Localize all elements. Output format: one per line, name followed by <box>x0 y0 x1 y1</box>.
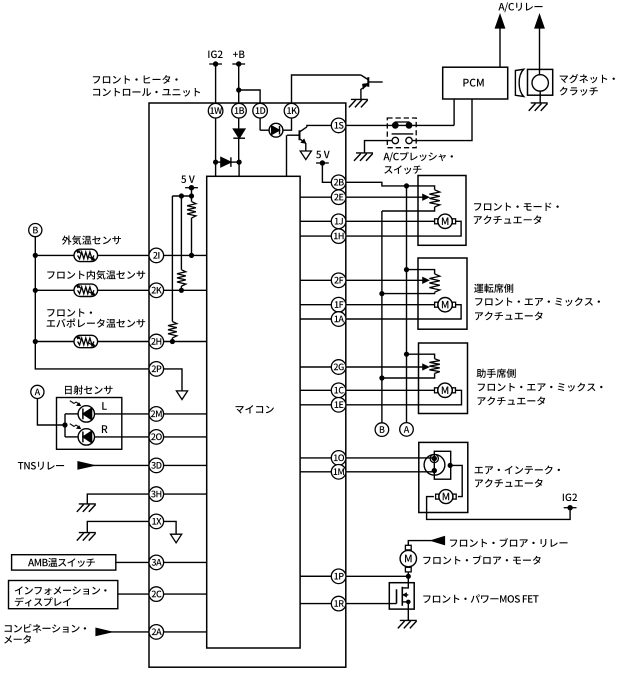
ground (Q1 emitter) <box>349 99 368 107</box>
wire bus A to passenger actuator pot <box>407 354 435 359</box>
wire Q2 collector to pin 1S <box>307 125 332 127</box>
photodiode L (sun sensor) <box>65 401 95 422</box>
junction +B branch <box>236 87 241 92</box>
driver air mix actuator box <box>418 258 467 329</box>
pin 2E <box>331 190 346 205</box>
pressure switch upper contact b <box>406 122 413 129</box>
wire maikon to pin 1M <box>300 471 331 473</box>
label: front mode actuator <box>474 203 559 225</box>
wire 2P to signal ground <box>164 369 183 391</box>
pin 1C <box>331 383 346 398</box>
wire A to sun sensor common <box>37 399 65 426</box>
thermistor: front inside air temp sensor <box>74 284 98 296</box>
wire 1X to ground <box>87 521 149 532</box>
pin 1J <box>331 214 346 229</box>
label: A/C pressure switch <box>383 152 453 174</box>
pin 1D <box>253 103 268 118</box>
wire pin 1P to FET drain node <box>346 575 409 577</box>
information display box <box>9 581 118 609</box>
bus A wire down to node A <box>406 186 408 423</box>
supply 5V for 2B <box>316 160 329 165</box>
wire maikon to pin 2E <box>300 196 331 198</box>
diode D2 (1W to 1B row) <box>216 157 240 167</box>
wire +B branch to pin 1D <box>239 90 260 130</box>
wire intake switch to motor M4 <box>450 465 462 496</box>
label: AMB temp switch <box>28 558 95 567</box>
pin 2P <box>149 362 164 377</box>
blower motor M5 <box>400 545 416 572</box>
magnet clutch box <box>528 69 553 95</box>
wire 1D to circled diode <box>260 129 269 131</box>
wire 5V to pin 2B <box>322 163 331 182</box>
wire blower motor to FET <box>407 572 409 587</box>
label R <box>102 425 108 433</box>
microcomputer (maikon) box <box>207 176 300 648</box>
wire maikon to pin 1J <box>300 220 331 222</box>
junction dot R1/2I row <box>189 253 194 258</box>
wire maikon to pin 1A <box>300 318 331 320</box>
label: front blower relay <box>450 538 568 547</box>
pin 1E <box>331 398 346 413</box>
pin 1H <box>331 229 346 244</box>
motor M2 (driver air mix) <box>435 298 456 312</box>
wire info display to pin 2C <box>118 593 149 595</box>
junction dot 1P/motor/FET <box>406 574 411 579</box>
pin 2G <box>331 360 346 375</box>
wire lower contacts right to PCM <box>412 99 472 141</box>
wire Q2 base to maikon <box>286 135 288 176</box>
front mode actuator box <box>418 176 466 246</box>
bus B wire down to node B <box>381 211 383 423</box>
wire maikon to pin 2F <box>300 279 331 281</box>
label: sun sensor <box>65 385 113 394</box>
junction dot sun sensor common <box>62 414 67 437</box>
wire 2C row to maikon <box>164 593 207 595</box>
wire maikon to pin 1P <box>300 575 331 577</box>
node A (bus bottom) <box>400 423 414 437</box>
wire pin 1K up to external transistor <box>292 75 361 104</box>
wire pin 1O to intake switch <box>346 457 432 459</box>
wire maikon to pin 1E <box>300 404 331 406</box>
wire upper contacts to PCM <box>453 99 455 125</box>
wire driver pot bottom to bus B <box>382 292 435 293</box>
wire +B down to pin 1B <box>238 64 240 128</box>
power MOS FET box <box>389 583 414 609</box>
label 5 V (left supply) <box>181 176 195 184</box>
wire pin 2E wiper arrow <box>346 195 429 200</box>
wire outside-air sensor row <box>35 254 149 256</box>
air intake actuator box <box>419 442 468 512</box>
wire 1B line into maikon <box>238 162 240 176</box>
wire IG2 to pin 1W <box>215 64 217 162</box>
pin 2H <box>149 334 164 349</box>
junction dot intake switch output <box>448 463 453 468</box>
wire pin 1S to pressure switch/PCM <box>346 124 454 126</box>
pin 1S <box>331 118 346 133</box>
ground (2P, signal) <box>176 391 187 400</box>
ground (pressure switch) <box>354 153 373 161</box>
wire pin 2B to mode actuator <box>346 182 435 190</box>
junction dot bus A top <box>404 183 409 188</box>
pin 1A <box>331 312 346 327</box>
junction dot bus A / passenger actuator <box>404 352 409 357</box>
node IG2 (top) <box>208 51 222 67</box>
node B (left) <box>29 224 42 237</box>
potentiometer (passenger air mix) <box>429 359 439 374</box>
wire FET source to ground <box>407 602 409 621</box>
wire maikon to pin 1H <box>300 235 331 237</box>
wire 2H row to maikon <box>164 341 207 343</box>
potentiometer (driver air mix) <box>429 274 439 292</box>
wire photodiode R to pin 2O <box>95 436 150 438</box>
transistor Q2 (internal, drives 1S) <box>287 127 307 143</box>
junction dot bus B / driver actuator <box>379 291 384 296</box>
wire 1X to signal ground <box>164 521 177 534</box>
label: combination meter <box>4 624 86 644</box>
label: front evaporator temp sensor <box>47 309 146 328</box>
wire lower contacts left to ground <box>365 141 393 153</box>
label: A/C relay <box>498 2 542 12</box>
label: maikon <box>236 405 274 414</box>
wire pin 1M to intake switch <box>346 471 432 473</box>
pin 1M <box>331 465 346 480</box>
wire maikon to pin 1R <box>300 603 331 605</box>
pressure switch upper contact bridge <box>395 121 410 123</box>
wire 5V left down <box>191 188 193 196</box>
wire inside-air sensor row <box>35 289 149 291</box>
thermistor: front evaporator temp sensor <box>74 335 98 347</box>
magnet clutch coil circle <box>532 75 548 91</box>
pin 3H <box>149 487 164 502</box>
potentiometer (mode actuator) <box>429 190 439 207</box>
MOSFET Q3 (front power MOS FET) <box>397 587 411 606</box>
diode D1 (below 1B, anode top) <box>233 129 245 162</box>
circled diode D3 <box>269 123 283 137</box>
wire AMB switch to pin 3A <box>116 561 149 563</box>
wire blower motor to relay arrow <box>408 537 444 546</box>
photodiode R (sun sensor) <box>65 424 95 445</box>
node IG2 (right) <box>563 494 577 511</box>
wire motor M4 to IG2 <box>427 497 570 520</box>
wire 3D row to maikon <box>164 464 207 466</box>
wire clutch to ground <box>539 91 541 103</box>
pin 2F <box>331 273 346 288</box>
pin 1R <box>331 596 346 611</box>
label: driver side air mix actuator <box>474 284 600 321</box>
wire 3H row to maikon <box>164 493 207 495</box>
resistor R3 (pull-up 2H) <box>168 196 177 342</box>
junction dot B/outside-air row <box>33 253 38 258</box>
pin 3A <box>149 555 164 570</box>
wire Q2 emitter to ground <box>305 143 307 151</box>
pin 1K <box>284 103 299 118</box>
wire TNS relay to pin 3D <box>78 462 149 469</box>
wire pin 1C to motor M3 <box>346 389 435 391</box>
junction dot B/evap row <box>33 339 38 344</box>
wire pin 1J to motor M1 <box>346 220 435 222</box>
pressure switch lower contact b <box>406 137 412 143</box>
passenger air mix actuator box <box>419 343 468 414</box>
wire 2M row to maikon <box>164 413 207 415</box>
wire maikon to pin 1C <box>300 389 331 391</box>
label: front blower motor <box>423 555 540 564</box>
junction dot R2/2K row <box>179 288 184 293</box>
label: outside air temp sensor <box>62 235 121 245</box>
A/C pressure switch (dashed box) <box>387 118 416 148</box>
ground (3H) <box>77 504 96 512</box>
A/C relay arrow 1 to PCM <box>495 15 504 67</box>
junction dot pull-up bus a <box>189 193 194 198</box>
label PCM <box>463 79 483 87</box>
wire bus A to driver actuator pot <box>407 270 435 274</box>
PCM box <box>443 67 508 99</box>
node B (bus bottom) <box>375 423 389 437</box>
sun sensor box <box>57 398 122 450</box>
motor M4 (air intake) <box>436 490 457 504</box>
junction dot R3/2H row <box>170 339 175 344</box>
A/C relay arrow 2 to magnet clutch <box>535 15 544 75</box>
pressure switch lower contact a <box>392 137 398 143</box>
wire circled diode to pin 1K <box>283 118 292 130</box>
motor M1 (mode actuator) <box>435 214 456 228</box>
junction dot pull-up bus b <box>179 193 184 198</box>
wire pin 1E to motor M3 <box>346 390 462 405</box>
wire maikon to pin 1O <box>300 457 331 459</box>
label: TNS relay <box>18 462 64 470</box>
label: air intake actuator <box>475 466 560 488</box>
label: magnet clutch <box>560 74 615 96</box>
wire maikon to pin 1F <box>300 304 331 306</box>
wire photodiode L to pin 2M <box>95 413 150 415</box>
wire passenger pot bottom to bus B <box>382 373 435 378</box>
label: front heater control unit <box>93 75 200 97</box>
wire pin 1H to motor M1 <box>346 221 461 236</box>
label: front inside air temp sensor <box>47 270 145 280</box>
resistor R2 (pull-up 2K) <box>177 196 186 290</box>
pin 2I <box>149 248 164 263</box>
front heater control unit box <box>149 103 346 667</box>
junction dot bus B / passenger actuator <box>379 375 384 380</box>
junction dot B/inside-air row <box>33 288 38 293</box>
AMB temp switch box <box>12 555 116 570</box>
wire pin 1F to motor M2 <box>346 304 435 306</box>
wire combination meter to pin 2A <box>96 628 149 635</box>
pin 2K <box>149 283 164 298</box>
wire 2A row to maikon <box>164 631 207 633</box>
wire 3H to ground <box>87 494 149 504</box>
wire 2I row to maikon <box>164 254 207 256</box>
pin 2B <box>331 175 346 190</box>
ground (magnet clutch) <box>529 103 548 111</box>
node A (left) <box>31 385 44 398</box>
pin 1X <box>149 514 164 529</box>
wire maikon to pin 2G <box>300 366 331 368</box>
thermistor: outside air temp sensor <box>74 249 98 261</box>
wire 3A row to maikon <box>164 561 207 563</box>
pin 1W <box>208 103 223 118</box>
wire maikon to pin 1P <box>300 575 331 577</box>
resistor R1 (pull-up 2I) <box>187 196 196 255</box>
wire mode pot bottom to bus B <box>382 207 435 211</box>
wire pull-up bus <box>172 195 191 197</box>
label: front power MOS FET <box>423 594 538 603</box>
pin 2O <box>149 430 164 445</box>
label L <box>102 402 107 410</box>
pin 2A <box>149 625 164 640</box>
ground (Q2 emitter, signal) <box>300 151 311 160</box>
label: information display <box>15 586 107 606</box>
ground (1X left) <box>77 533 96 541</box>
pin 1O <box>331 451 346 466</box>
wire 2K row to maikon <box>164 289 207 291</box>
wire pin 1A to motor M2 <box>346 305 461 319</box>
wire pin 2G wiper arrow <box>346 364 429 369</box>
pin 1P <box>331 569 346 584</box>
wire pin 2F wiper arrow <box>346 278 429 283</box>
wire 2O row to maikon <box>164 436 207 438</box>
pressure switch upper contact a <box>392 122 399 129</box>
ground (1X right, signal) <box>171 534 182 543</box>
node +B (top) <box>232 51 245 67</box>
pin 2C <box>149 587 164 602</box>
wire evaporator sensor row <box>35 341 149 343</box>
label: passenger side air mix actuator <box>477 369 603 406</box>
transistor Q1 (external PNP) <box>361 75 383 99</box>
pin 3D <box>149 458 164 473</box>
junction dot at 1B/diode row <box>237 160 242 165</box>
magnet clutch pulley <box>515 69 523 96</box>
label 5 V (near 2B supply) <box>316 151 330 159</box>
pin 1B <box>232 103 247 118</box>
wire B bus down to 2P row <box>35 237 149 369</box>
pressure switch lower bar <box>392 133 414 135</box>
air intake rotary switch <box>424 451 451 479</box>
ground (MOS FET) <box>398 620 417 628</box>
wire 1W line into maikon <box>215 162 217 176</box>
wire pin 1R to FET gate <box>346 603 397 605</box>
junction dot bus A / driver actuator <box>404 267 409 272</box>
supply 5V left <box>185 185 198 190</box>
junction dot at 1W/diode row <box>213 160 218 165</box>
pin 2M <box>149 407 164 422</box>
pin 1F <box>331 297 346 312</box>
motor M3 (passenger air mix) <box>435 383 456 397</box>
